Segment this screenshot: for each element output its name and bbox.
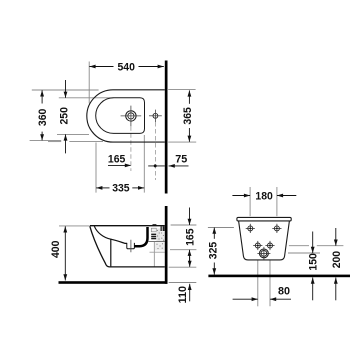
svg-text:110: 110 [177, 286, 189, 303]
svg-text:335: 335 [112, 183, 130, 195]
svg-text:400: 400 [50, 241, 62, 258]
svg-text:180: 180 [255, 191, 272, 203]
svg-text:80: 80 [278, 286, 290, 298]
svg-text:325: 325 [207, 241, 219, 259]
svg-text:360: 360 [37, 109, 49, 126]
svg-text:365: 365 [182, 107, 194, 125]
svg-text:165: 165 [184, 228, 196, 246]
svg-text:150: 150 [308, 253, 320, 270]
svg-text:250: 250 [58, 107, 70, 124]
svg-text:200: 200 [331, 251, 343, 268]
svg-text:165: 165 [108, 154, 126, 166]
svg-text:75: 75 [175, 154, 188, 166]
svg-text:540: 540 [118, 62, 135, 74]
